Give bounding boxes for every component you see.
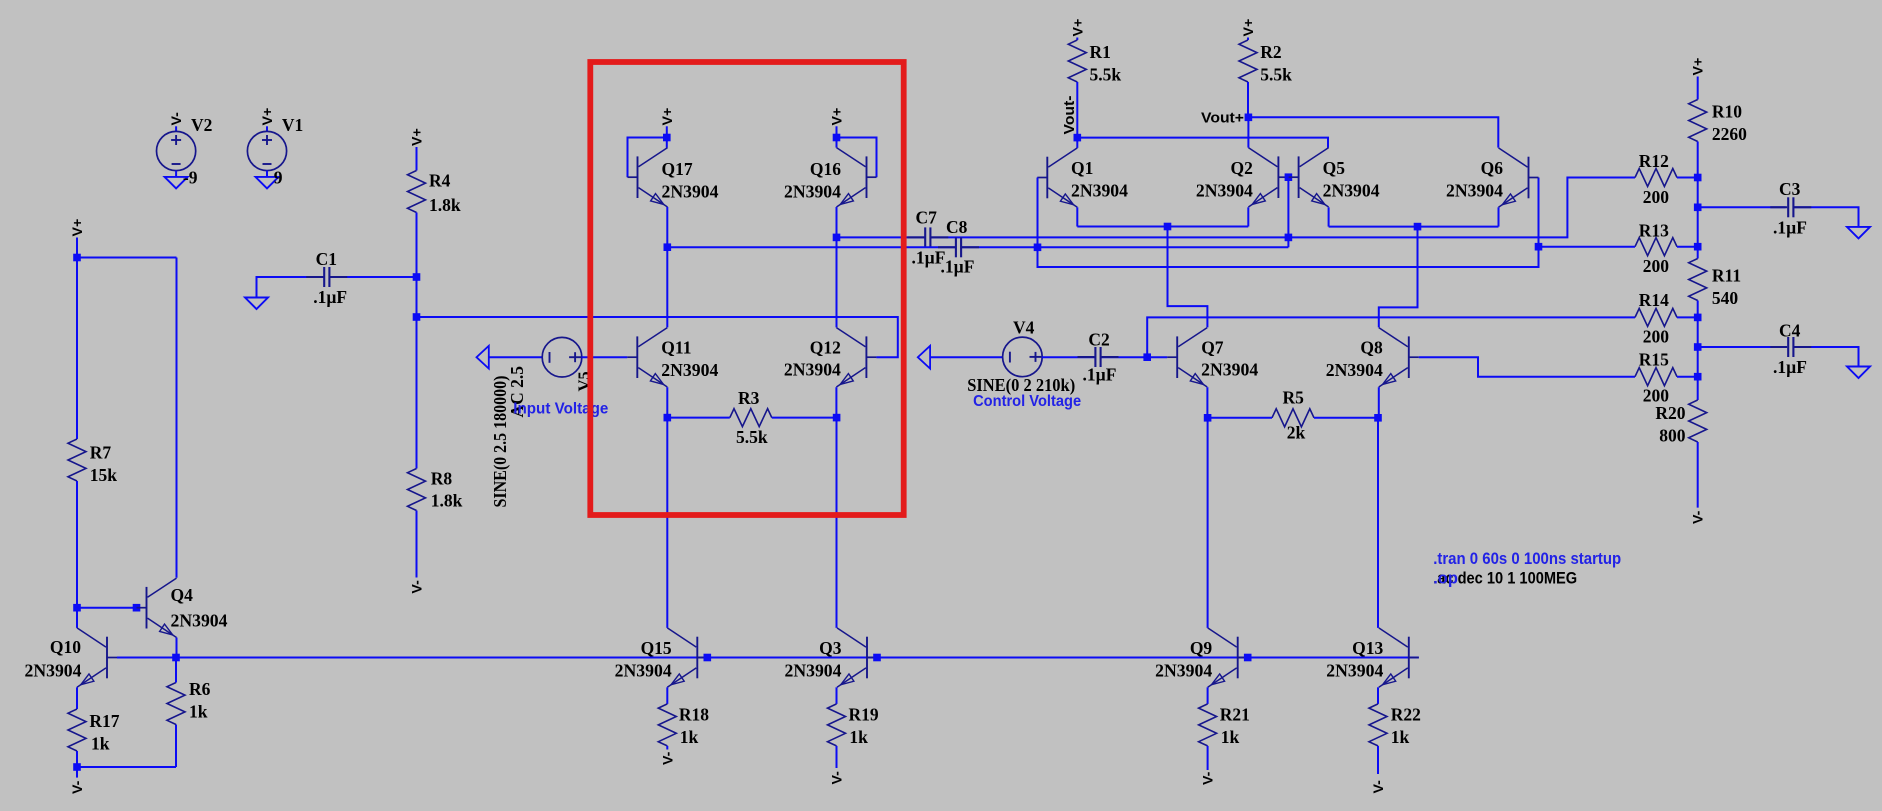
- wire (Vout- net): [1077, 138, 1328, 148]
- svg-text:.1µF: .1µF: [1083, 364, 1117, 384]
- svg-text:5.5k: 5.5k: [1260, 64, 1292, 84]
- transistor Q7: [1167, 328, 1207, 387]
- wire: [1247, 82, 1249, 117]
- svg-text:2k: 2k: [1287, 423, 1306, 443]
- wire: [772, 417, 837, 419]
- wire: [1329, 226, 1418, 228]
- label Vout- (rotated): [1062, 95, 1078, 134]
- svg-text:.1µF: .1µF: [941, 256, 975, 276]
- node Q16 emitter / C7 wire: [833, 234, 841, 242]
- wire: [961, 246, 1037, 248]
- label C2: [1088, 330, 1109, 350]
- svg-text:V-: V-: [1201, 771, 1217, 785]
- label SINE(0 2 210k): [967, 375, 1075, 395]
- resistor R21: [1199, 704, 1217, 746]
- wire: [416, 147, 418, 171]
- svg-text:R13: R13: [1639, 220, 1669, 240]
- wire: [1314, 417, 1378, 419]
- wire: [1697, 377, 1699, 400]
- svg-text:R4: R4: [429, 170, 451, 190]
- svg-text:R21: R21: [1220, 705, 1250, 725]
- svg-text:V+: V+: [1241, 19, 1257, 37]
- node R14/R11: [1694, 314, 1702, 322]
- svg-text:1k: 1k: [1221, 727, 1240, 747]
- wire: [1076, 207, 1078, 226]
- transistor Q3: [837, 628, 877, 687]
- svg-text:R17: R17: [89, 711, 119, 731]
- net flag V+ (R4 top): [410, 128, 426, 146]
- label Q6: [1481, 158, 1504, 178]
- svg-text:V+: V+: [70, 219, 86, 237]
- svg-text:R15: R15: [1639, 349, 1669, 369]
- wire: [175, 725, 177, 768]
- label 5.5k (R3): [736, 427, 768, 447]
- label R15: [1639, 349, 1669, 369]
- directive .op overlay: [1433, 570, 1458, 588]
- net flag V- (V2 top): [169, 112, 185, 126]
- svg-text:R7: R7: [90, 442, 112, 462]
- svg-text:C3: C3: [1779, 179, 1801, 199]
- label R7: [90, 442, 112, 462]
- wire: [1378, 387, 1380, 418]
- capacitor C8: [938, 237, 979, 257]
- wire: [257, 277, 325, 298]
- label V1: [282, 115, 303, 135]
- svg-text:2260: 2260: [1712, 124, 1747, 144]
- net flag V- (R21): [1201, 771, 1217, 785]
- label R17: [89, 711, 119, 731]
- resistor R3: [730, 409, 772, 427]
- resistor R12: [1635, 169, 1677, 187]
- wire (Q4 base): [77, 607, 137, 609]
- node R10/R12: [1694, 174, 1702, 182]
- label 2N3904 (Q8): [1326, 360, 1383, 380]
- node R15/R20: [1694, 373, 1702, 381]
- node C4 tap: [1694, 343, 1702, 351]
- svg-text:R10: R10: [1712, 101, 1742, 121]
- svg-text:R8: R8: [431, 469, 453, 489]
- wire: [930, 356, 1003, 358]
- wire: [489, 356, 543, 358]
- wire: [76, 258, 78, 440]
- wire: [1677, 177, 1698, 179]
- wire (bottom base rail): [117, 657, 1419, 659]
- label 2k (R5): [1287, 423, 1306, 443]
- svg-text:2N3904: 2N3904: [1446, 181, 1503, 201]
- svg-text:V+: V+: [660, 108, 676, 126]
- wire: [1418, 226, 1499, 228]
- label 200 (R15): [1643, 386, 1670, 406]
- junction Q15 base: [704, 654, 712, 662]
- resistor R13: [1635, 238, 1677, 256]
- wire: [1147, 356, 1167, 358]
- label 9: [274, 167, 283, 187]
- input port arrow (V5): [477, 346, 489, 369]
- svg-text:.1µF: .1µF: [1773, 218, 1807, 238]
- node R13 / Q6 base wire: [1535, 243, 1543, 251]
- wire: [836, 237, 838, 327]
- label R13: [1639, 220, 1669, 240]
- label 2N3904 (Q17): [662, 182, 719, 202]
- wire: [666, 687, 668, 704]
- wire: [1697, 442, 1699, 508]
- comment Control Voltage: [973, 393, 1081, 410]
- directive .ac (black): [1433, 570, 1577, 588]
- wire: [836, 207, 838, 237]
- ground (C3): [1847, 227, 1870, 239]
- svg-text:2N3904: 2N3904: [661, 360, 718, 380]
- resistor R4: [408, 171, 426, 213]
- wire: [1793, 347, 1858, 367]
- label 800: [1659, 425, 1686, 445]
- label Q15: [641, 638, 672, 658]
- ground (C4): [1847, 367, 1870, 379]
- wire: [1207, 746, 1209, 770]
- svg-text:V-: V-: [830, 771, 846, 785]
- svg-text:V-: V-: [169, 112, 185, 126]
- resistor R8: [408, 469, 426, 511]
- wire (Q16 base loop): [837, 138, 877, 178]
- wire: [1328, 207, 1330, 226]
- label 2N3904 (Q13): [1326, 660, 1383, 680]
- net flag V+ (R1): [1070, 19, 1086, 37]
- wire: [77, 257, 177, 259]
- wire: [1247, 38, 1249, 41]
- svg-text:1.8k: 1.8k: [431, 491, 463, 511]
- node Vout- / R1 / Q1 collector: [1074, 134, 1082, 142]
- transistor Q15: [667, 628, 707, 687]
- wire: [76, 767, 78, 778]
- wire: [1377, 746, 1379, 774]
- wire: [1698, 346, 1786, 348]
- svg-text:SINE(0 2 210k): SINE(0 2 210k): [967, 375, 1075, 395]
- svg-text:V-: V-: [1371, 780, 1387, 794]
- capacitor C2: [1078, 347, 1119, 367]
- wire: [666, 126, 668, 137]
- label R21: [1220, 705, 1250, 725]
- label Q17: [662, 159, 693, 179]
- wire (R14 left): [1147, 317, 1635, 357]
- svg-text:V+: V+: [410, 128, 426, 146]
- svg-text:Q2: Q2: [1231, 158, 1253, 178]
- transistor Q5: [1289, 148, 1329, 207]
- label .1µF (C7): [912, 247, 946, 267]
- wire: [176, 638, 178, 658]
- wire: [667, 417, 730, 419]
- resistor R22: [1369, 704, 1387, 746]
- svg-text:V1: V1: [282, 115, 303, 135]
- net flag V- (R19): [830, 771, 846, 785]
- wire (input net): [417, 317, 898, 357]
- svg-text:V+: V+: [1070, 19, 1086, 37]
- svg-text:V-: V-: [1691, 510, 1707, 524]
- svg-text:.1µF: .1µF: [1773, 357, 1807, 377]
- wire: [835, 387, 837, 417]
- resistor R18: [658, 704, 676, 746]
- label V4: [1013, 318, 1035, 338]
- voltage source V2: [157, 131, 196, 170]
- voltage source V4: [1003, 337, 1043, 377]
- resistor R19: [828, 704, 846, 746]
- svg-text:V-: V-: [410, 580, 426, 594]
- label R2: [1260, 42, 1281, 62]
- wire: [836, 138, 838, 148]
- wire: [175, 171, 177, 177]
- wire: [1208, 417, 1272, 419]
- svg-text:Q4: Q4: [171, 585, 194, 605]
- svg-text:200: 200: [1643, 187, 1670, 207]
- svg-text:2N3904: 2N3904: [662, 182, 719, 202]
- svg-text:Q9: Q9: [1190, 638, 1213, 658]
- label 15k: [90, 465, 118, 485]
- resistor R15: [1635, 368, 1677, 386]
- node Q12 emitter / R3: [833, 414, 841, 422]
- node Q1/Q2 emitters: [1164, 223, 1172, 231]
- svg-text:C8: C8: [946, 217, 968, 237]
- label .1µF (C1): [313, 287, 347, 307]
- wire: [266, 126, 268, 132]
- net flag V+ (V1 top): [260, 108, 276, 126]
- label 1k (R6): [189, 701, 208, 721]
- svg-text:V+: V+: [1691, 58, 1707, 76]
- node V+ rail/loop junction: [73, 254, 81, 262]
- svg-text:2N3904: 2N3904: [25, 660, 82, 680]
- transistor Q11: [627, 328, 667, 387]
- svg-text:1k: 1k: [849, 727, 868, 747]
- wire: [76, 687, 78, 709]
- junction Q4 base: [133, 604, 141, 612]
- svg-text:2N3904: 2N3904: [784, 360, 841, 380]
- label 5.5k (R2): [1260, 64, 1292, 84]
- voltage source V1: [247, 131, 286, 170]
- label C7: [916, 207, 938, 227]
- svg-text:2N3904: 2N3904: [1323, 181, 1380, 201]
- wire: [176, 258, 178, 578]
- net flag V+ (left rail): [70, 219, 86, 237]
- svg-text:1k: 1k: [680, 727, 699, 747]
- svg-text:2N3904: 2N3904: [785, 660, 842, 680]
- svg-text:2N3904: 2N3904: [1071, 181, 1128, 201]
- svg-text:800: 800: [1659, 425, 1686, 445]
- wire: [1206, 387, 1208, 418]
- node input wire tap: [413, 313, 421, 321]
- svg-text:Q13: Q13: [1352, 638, 1383, 658]
- net flag V+ (R10): [1691, 58, 1707, 76]
- svg-text:.1µF: .1µF: [313, 287, 347, 307]
- label R11: [1712, 265, 1741, 285]
- wire: [836, 746, 838, 768]
- label 2N3904 (Q10): [25, 660, 82, 680]
- label 2N3904 (Q2): [1196, 181, 1253, 201]
- svg-text:5.5k: 5.5k: [1090, 64, 1122, 84]
- label 2N3904 (Q3): [785, 660, 842, 680]
- node Q2/Q5 bases: [1285, 173, 1293, 181]
- resistor R7: [68, 439, 86, 481]
- wire: [1042, 356, 1095, 358]
- wire: [1247, 117, 1249, 147]
- svg-text:SINE(0 2.5 180000): SINE(0 2.5 180000): [490, 375, 510, 507]
- wire (Q7 collector): [1168, 227, 1208, 328]
- transistor Q4: [137, 578, 177, 637]
- resistor R11: [1689, 259, 1707, 301]
- svg-text:C1: C1: [316, 249, 337, 269]
- svg-text:Q16: Q16: [810, 159, 841, 179]
- svg-text:R22: R22: [1391, 705, 1421, 725]
- wire: [329, 276, 416, 278]
- label Q1: [1071, 158, 1093, 178]
- label 1k (R18): [680, 727, 699, 747]
- svg-text:C2: C2: [1088, 330, 1109, 350]
- label .1µF (C3): [1773, 218, 1807, 238]
- wire: [1677, 316, 1698, 318]
- transistor Q8: [1379, 328, 1419, 387]
- svg-text:200: 200: [1643, 256, 1670, 276]
- node Q7 emitter / R5: [1204, 414, 1212, 422]
- wire: [175, 126, 177, 132]
- wire: [1168, 226, 1249, 228]
- node Q11 emitter / R3: [664, 414, 672, 422]
- wire: [1038, 246, 1289, 248]
- label 5.5k (R1): [1090, 64, 1122, 84]
- voltage source V5: [542, 337, 582, 377]
- net flag V- (R22): [1371, 780, 1387, 794]
- svg-text:2N3904: 2N3904: [784, 182, 841, 202]
- net flag V- (R8 bottom): [410, 580, 426, 594]
- svg-text:Q11: Q11: [661, 338, 691, 358]
- label 2N3904 (Q6): [1446, 181, 1503, 201]
- net flag V+ (Q17): [660, 108, 676, 126]
- svg-text:15k: 15k: [90, 465, 118, 485]
- label R18: [679, 705, 709, 725]
- svg-text:Q7: Q7: [1201, 338, 1224, 358]
- wire: [582, 356, 628, 358]
- svg-text:R14: R14: [1639, 290, 1669, 310]
- net flag V+ (R2): [1241, 19, 1257, 37]
- svg-text:V2: V2: [191, 115, 212, 135]
- label 1k (R21): [1221, 727, 1240, 747]
- svg-text:2N3904: 2N3904: [1196, 181, 1253, 201]
- transistor Q9: [1208, 628, 1248, 687]
- wire: [666, 247, 668, 327]
- node Q17 collector/base loop: [663, 134, 671, 142]
- label Q8: [1360, 338, 1383, 358]
- wire (to Q15): [666, 418, 668, 628]
- svg-text:V+: V+: [830, 108, 846, 126]
- svg-text:V-: V-: [660, 751, 676, 765]
- wire: [836, 126, 838, 137]
- svg-text:Q3: Q3: [819, 638, 842, 658]
- label Q2: [1231, 158, 1253, 178]
- wire: [666, 387, 668, 417]
- label 2N3904 (Q9): [1155, 660, 1212, 680]
- wire (Q8 base / R15): [1419, 357, 1635, 377]
- wire: [1697, 317, 1699, 376]
- wire: [1247, 207, 1249, 226]
- svg-text:1k: 1k: [189, 701, 208, 721]
- svg-text:Control Voltage: Control Voltage: [973, 393, 1081, 410]
- label Q4: [171, 585, 194, 605]
- svg-text:R3: R3: [738, 388, 760, 408]
- wire: [1377, 687, 1379, 704]
- node R17/R6 bottom: [73, 763, 81, 771]
- svg-text:R6: R6: [189, 679, 211, 699]
- label 2N3904 (Q12): [784, 360, 841, 380]
- label .1µF (C8): [941, 256, 975, 276]
- wire: [1498, 207, 1500, 226]
- wire (C7 to R12 elbow): [930, 178, 1635, 238]
- ground (V2): [165, 177, 188, 189]
- transistor Q6: [1499, 148, 1539, 207]
- label R12: [1639, 151, 1669, 171]
- label Vout+: [1201, 110, 1244, 126]
- resistor R1: [1068, 40, 1086, 82]
- wire: [77, 766, 176, 768]
- label Q16: [810, 159, 841, 179]
- svg-text:R11: R11: [1712, 265, 1741, 285]
- wire: [1677, 246, 1698, 248]
- label 2260: [1712, 124, 1747, 144]
- comment Input Voltage: [513, 400, 608, 417]
- label Q7: [1201, 338, 1224, 358]
- svg-text:2N3904: 2N3904: [1155, 660, 1212, 680]
- transistor Q2: [1248, 148, 1288, 207]
- svg-text:Q6: Q6: [1481, 158, 1504, 178]
- wire: [76, 608, 78, 628]
- svg-text:5.5k: 5.5k: [736, 427, 768, 447]
- wire: [1697, 301, 1699, 318]
- wire: [1076, 38, 1078, 41]
- directive .tran: [1433, 550, 1621, 568]
- svg-text:Vout-: Vout-: [1062, 95, 1078, 134]
- node C8/Q1 base/Q6 base wire: [1034, 244, 1042, 252]
- input port arrow (V4): [918, 346, 930, 369]
- wire: [76, 481, 78, 608]
- wire: [76, 238, 78, 258]
- resistor R10: [1689, 100, 1707, 142]
- transistor Q16: [837, 148, 877, 207]
- label R22: [1391, 705, 1421, 725]
- wire: [1101, 356, 1148, 358]
- transistor Q13: [1379, 628, 1419, 687]
- net flag V+ (Q16): [830, 108, 846, 126]
- svg-text:1.8k: 1.8k: [429, 195, 461, 215]
- wire: [1793, 207, 1858, 227]
- label 2N3904 (Q15): [615, 660, 672, 680]
- label 2N3904 (Q5): [1323, 181, 1380, 201]
- wire: [666, 138, 668, 148]
- svg-text:200: 200: [1643, 326, 1670, 346]
- resistor R2: [1239, 40, 1257, 82]
- svg-text:R12: R12: [1639, 151, 1669, 171]
- net flag V- (R20): [1691, 510, 1707, 524]
- node C3 tap: [1694, 204, 1702, 212]
- svg-text:9: 9: [274, 167, 283, 187]
- svg-text:1k: 1k: [91, 733, 110, 753]
- ground (C1): [245, 298, 268, 310]
- svg-text:540: 540: [1712, 288, 1739, 308]
- wire: [666, 746, 668, 750]
- label 200 (R13): [1643, 256, 1670, 276]
- svg-text:Input Voltage: Input Voltage: [513, 400, 608, 417]
- svg-text:.op: .op: [1433, 570, 1458, 588]
- wire (Q17 base loop): [628, 138, 667, 178]
- wire: [76, 751, 78, 767]
- net flag V- (bottom left): [70, 780, 86, 794]
- label Q3: [819, 638, 842, 658]
- svg-text:Q10: Q10: [50, 637, 81, 657]
- svg-text:Q5: Q5: [1323, 158, 1346, 178]
- svg-text:C4: C4: [1779, 321, 1801, 341]
